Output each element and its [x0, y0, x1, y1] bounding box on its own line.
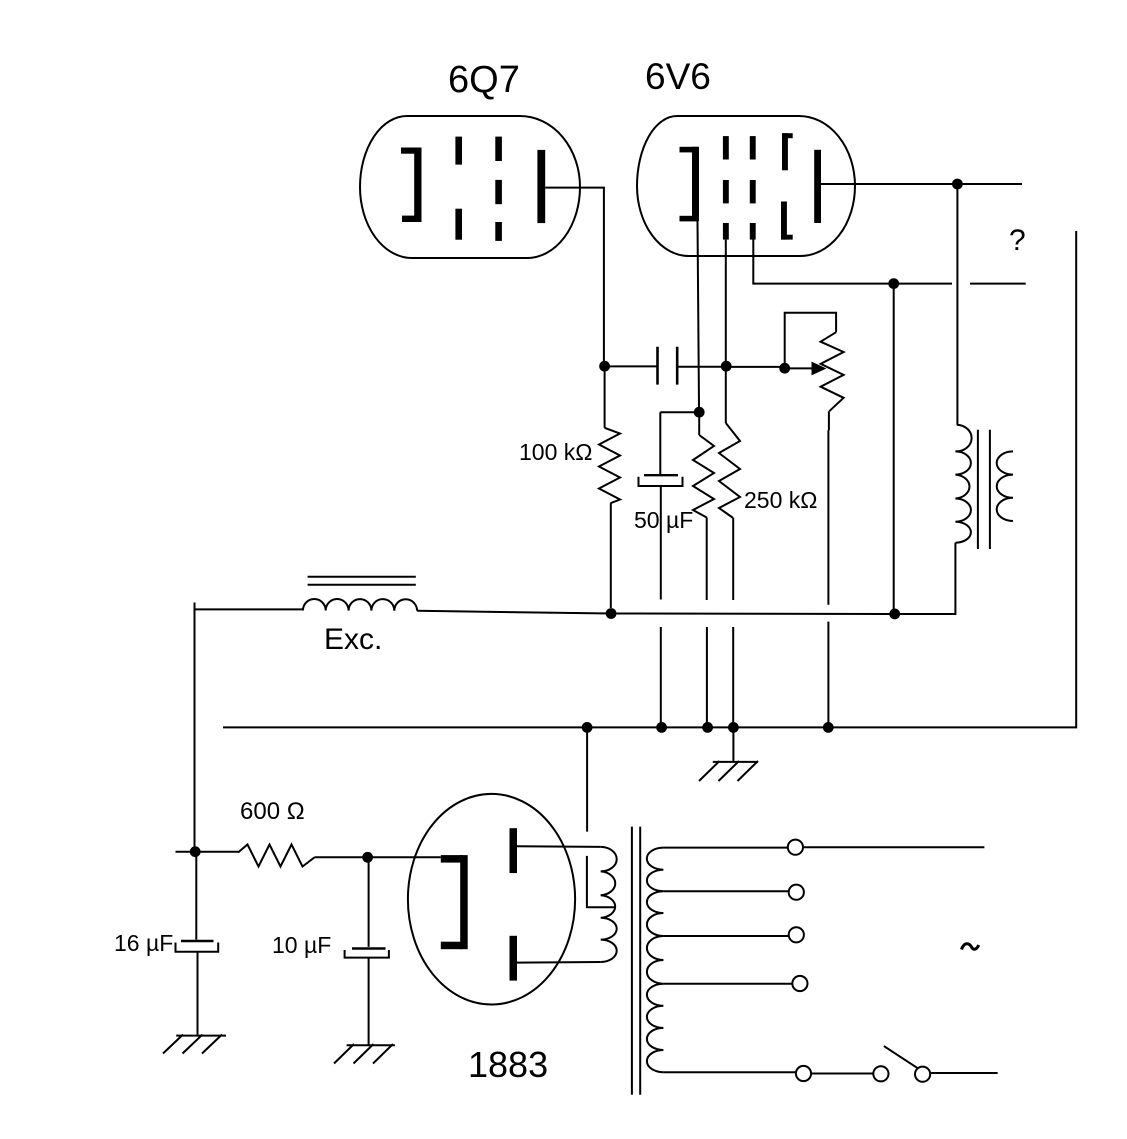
switch throw terminal — [915, 1067, 930, 1082]
6V6 screen grid g2 (dashed) — [750, 136, 756, 240]
svg-text:6V6: 6V6 — [645, 56, 711, 97]
field coil Exc winding — [303, 599, 417, 611]
capacitor 50uF top lead — [660, 412, 699, 474]
switch pole terminal — [873, 1066, 888, 1081]
cathode resistor body — [693, 435, 714, 518]
node C junction — [779, 363, 790, 374]
output transformer primary lead — [956, 184, 958, 425]
junction dot bus / 50uF — [656, 722, 667, 733]
capacitor 16uF plates — [181, 940, 214, 942]
terminal circle tap 4 — [792, 976, 807, 991]
wire screen junction down to B+ rail — [893, 284, 895, 609]
capacitor 10uF bottom lead — [368, 958, 370, 1045]
svg-text:Exc.: Exc. — [324, 623, 382, 656]
junction dot 600 ohm / 10uF — [362, 852, 373, 863]
resistor 250 kOhm bottom lead (gap at crossing) — [732, 518, 734, 723]
resistor 100 kOhm bottom lead — [610, 503, 612, 608]
terminal circle tap 5 — [796, 1066, 811, 1081]
secondary tap 2 wire — [663, 890, 788, 892]
resistor 600 ohm left lead — [195, 851, 238, 853]
secondary tap 1 wire — [663, 846, 984, 848]
svg-text:6Q7: 6Q7 — [448, 59, 520, 101]
6Q7 grid g1 (dashed) — [455, 137, 462, 240]
coupling capacitor left lead — [605, 365, 657, 367]
cathode resistor top lead — [698, 412, 700, 435]
resistor 600 ohm body — [238, 845, 315, 867]
6Q7 grid g2 (dashed) — [495, 137, 502, 241]
node B junction (6V6 grid) — [721, 361, 732, 372]
resistor 100 kOhm body — [599, 428, 620, 503]
power transformer secondary winding — [647, 848, 664, 1073]
capacitor 10uF plates — [352, 947, 386, 949]
junction dot B+ rail / transformer return — [889, 609, 900, 620]
capacitor 16uF top lead — [195, 852, 197, 940]
svg-text:50 µF: 50 µF — [634, 507, 693, 533]
capacitor 50uF plates — [644, 474, 678, 476]
resistor 100 kOhm top lead — [604, 366, 606, 427]
rectifier plate lower — [510, 936, 518, 981]
ground symbol (16uF) — [163, 1035, 226, 1054]
wire 6V6 screen to right (gap at crossing) — [753, 239, 1025, 284]
6V6 cathode — [680, 147, 700, 222]
svg-text:1883: 1883 — [468, 1044, 548, 1085]
wire 6V6 plate to right — [821, 183, 1022, 185]
terminal circle tap 2 — [789, 885, 804, 900]
rectifier cathode — [441, 855, 468, 949]
junction dot left riser / 16uF / 600 ohm — [190, 846, 201, 857]
wire lower plate to HV winding — [517, 961, 601, 964]
wire upper plate to HV winding — [517, 845, 601, 848]
secondary tap 4 wire — [663, 983, 792, 985]
wire 6Q7 plate to node A — [545, 188, 604, 367]
cathode resistor bottom lead (gap at crossing) — [706, 518, 708, 723]
wire 6V6 cathode down to node E — [698, 221, 700, 407]
wire bus to HV center tap (gap at plate wire) — [587, 727, 615, 907]
potentiometer resistor body — [821, 332, 844, 411]
output transformer secondary winding — [997, 451, 1013, 521]
terminal circle tap 3 — [789, 927, 804, 942]
wire switch to right — [930, 1072, 997, 1074]
tube 6Q7 envelope — [360, 116, 580, 258]
6Q7 plate — [537, 150, 545, 223]
junction dot plate wire — [952, 179, 963, 190]
coupling capacitor right lead — [677, 366, 726, 368]
node A junction — [599, 361, 610, 372]
wire 6V6 grid down to node B — [725, 240, 727, 361]
ground symbol (bus) — [699, 727, 758, 781]
secondary tap 3 wire — [663, 935, 788, 937]
rectifier plate upper — [510, 828, 518, 873]
tube 6V6 envelope — [637, 116, 855, 256]
6V6 plate — [814, 150, 821, 223]
wire B+ rail left segment — [195, 608, 303, 610]
wire tap5 to switch — [811, 1073, 873, 1075]
svg-text:16 µF: 16 µF — [114, 930, 173, 956]
6Q7 cathode — [401, 148, 422, 223]
wire left riser down — [194, 603, 196, 852]
coupling capacitor plates — [658, 347, 678, 385]
junction dot bus / cathode resistor — [702, 722, 713, 733]
potentiometer top loop wire — [785, 313, 836, 369]
rectifier tube 1883 envelope — [408, 794, 575, 1005]
capacitor 10uF top lead — [368, 857, 370, 947]
svg-text:250 kΩ: 250 kΩ — [744, 487, 817, 513]
svg-text:100 kΩ: 100 kΩ — [519, 439, 592, 465]
wire 600 ohm to rectifier cathode — [315, 856, 441, 858]
wire node B to pot wiper node C — [726, 366, 785, 368]
svg-text:600 Ω: 600 Ω — [240, 798, 305, 825]
capacitor 50uF bottom lead (gap at bus crossing) — [660, 486, 662, 723]
secondary tap 5 wire — [663, 1071, 796, 1073]
AC symbol ~ — [962, 944, 979, 950]
capacitor 16uF bottom lead — [197, 952, 199, 1035]
node D junction — [606, 608, 617, 619]
switch lever — [884, 1046, 922, 1071]
resistor 250 kOhm top lead — [725, 366, 727, 423]
junction dot bus / 250k and ground — [728, 722, 739, 733]
output transformer core — [978, 430, 990, 549]
potentiometer wiper arrow — [785, 367, 813, 369]
power transformer core — [632, 827, 640, 1095]
ground bus wire — [223, 231, 1076, 727]
junction dot screen wire — [888, 278, 899, 289]
ground symbol (10uF) — [334, 1044, 395, 1064]
6V6 beam plate lower — [781, 202, 793, 240]
power transformer HV winding — [601, 847, 617, 962]
svg-text:10 µF: 10 µF — [272, 932, 331, 958]
junction dot bus / potentiometer — [823, 722, 834, 733]
node E junction (cathode) — [694, 407, 705, 418]
junction dot bus / rectifier — [582, 722, 593, 733]
field coil Exc core lines — [308, 577, 416, 585]
6V6 beam plate upper — [782, 133, 793, 170]
potentiometer bottom lead — [827, 411, 830, 722]
wire B+ rail right segment — [417, 543, 955, 614]
output transformer primary winding — [955, 425, 971, 543]
wire stub left of junction — [176, 851, 196, 853]
terminal circle tap 1 — [788, 840, 803, 855]
resistor 250 kOhm body — [719, 423, 740, 518]
6V6 control grid g1 (dashed) — [723, 136, 729, 240]
svg-text:?: ? — [1009, 224, 1026, 257]
